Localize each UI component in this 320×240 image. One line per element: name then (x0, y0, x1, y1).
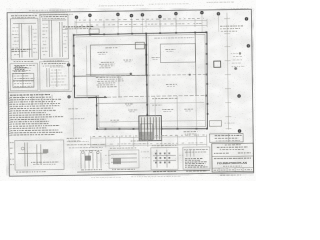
building outer foundation wall (74, 32, 209, 130)
left block A annotations (12, 27, 18, 29)
spec note block inside plan (101, 61, 115, 63)
interior text row (105, 47, 117, 49)
building outer wall inner line (76, 34, 207, 128)
content area tone washes (7, 13, 73, 175)
left detail block A frame (10, 18, 38, 59)
left block A wall-section lines (13, 23, 36, 57)
right margin dim ticks (224, 19, 232, 129)
inner bottom line lower wing (98, 120, 205, 121)
left middle block C2 (40, 61, 69, 90)
left block B title text (41, 15, 67, 17)
top dimension chain lines (75, 19, 207, 29)
text row under top wall right (154, 37, 194, 40)
lower inner vertical (118, 76, 120, 97)
right margin small text (231, 8, 249, 10)
block D dark blob (43, 149, 49, 153)
lower horizontal wall (dark near corner, faint right) (88, 96, 107, 99)
small shaft room (135, 42, 144, 49)
C1 small plan figure (13, 73, 34, 87)
top-left inner room (90, 44, 145, 76)
block A caption (14, 60, 34, 62)
block B caption (44, 60, 64, 62)
page background (0, 0, 256, 181)
small label box near building top-left (89, 29, 99, 34)
right inner wall lower faint (195, 96, 197, 127)
heavy ghost streak left of top dim (63, 25, 94, 27)
scan blotch unevenness (6, 8, 254, 176)
left bottom detail block D frame (15, 140, 64, 170)
block D schematic lines (18, 142, 47, 166)
title block project line (214, 157, 251, 160)
grid bubble leader lines (76, 14, 218, 34)
top dimension text (79, 18, 204, 20)
foundation pier symbols (73, 31, 209, 131)
bottom margin microtext (131, 175, 180, 178)
interior partition line (85, 46, 88, 98)
left block B annotations (42, 23, 47, 25)
left detail block B frame (40, 14, 69, 59)
bottom detail f4 (notes) (183, 147, 210, 169)
right margin grid bubbles (237, 18, 251, 133)
bottom-left caption row (16, 171, 46, 173)
left block A title text (11, 14, 37, 16)
right inner wall (194, 32, 197, 95)
mid horizontal wall (74, 75, 95, 77)
bottom strip filler marks (105, 154, 111, 156)
lower-left dim texts (67, 137, 82, 139)
left middle block C1 (10, 63, 38, 90)
notes table numbering column (9, 98, 10, 136)
right margin dimension line (227, 13, 229, 130)
sheet border frame (7, 9, 254, 176)
top-right revision note rows (220, 25, 243, 27)
note box above title block (210, 133, 244, 142)
spec note block 2 inside plan (96, 76, 122, 78)
mid wall leader line with arrow (86, 73, 131, 76)
bottom dimension text (93, 135, 205, 137)
right margin dark dot (234, 67, 237, 70)
bottom detail f1 (81, 152, 101, 168)
left block B wall-section lines (42, 20, 67, 57)
center vertical wall (146, 33, 147, 128)
right-bottom porch detail (209, 121, 221, 127)
porch label (224, 122, 234, 124)
block A dark text patch (11, 48, 31, 50)
lower-right inner vertical (176, 96, 178, 129)
bottom detail f3 (151, 147, 178, 169)
left dim bubbles (67, 64, 70, 98)
column grid bubbles (top row) (75, 11, 220, 19)
room labels (97, 49, 193, 122)
title block signature cells (212, 168, 254, 172)
title block frame (212, 143, 254, 172)
top-right inner room (160, 44, 195, 63)
left margin small marks (10, 142, 14, 144)
bottom stair protrusion (139, 116, 162, 141)
lower-right room annotations (152, 97, 177, 99)
fine scan speckle noise (0, 0, 256, 181)
title block separator (212, 155, 253, 158)
ghost text smudges top margin (29, 2, 234, 15)
dim text above f3 (131, 140, 148, 142)
left building dimension line (72, 36, 73, 137)
notes table column rules (22, 95, 52, 106)
left column separator line (8, 90, 71, 93)
bottom strip scattered text left (67, 143, 105, 146)
FOUNDATION PLAN title (217, 161, 247, 165)
left middle block C1 dark note (15, 65, 24, 67)
bottom dimension rows under building (91, 134, 207, 147)
lower-left inner wall (97, 102, 147, 105)
title row below plan title (223, 165, 242, 167)
bottom strip ground line (77, 170, 210, 172)
lower-left margin text marks (68, 108, 78, 110)
bottom detail f2 (109, 150, 139, 168)
f1 top circles (82, 150, 100, 154)
right margin small square detail (214, 61, 221, 67)
title block header rows (214, 145, 251, 154)
block D caption (31, 161, 59, 163)
general notes table (10, 94, 63, 135)
